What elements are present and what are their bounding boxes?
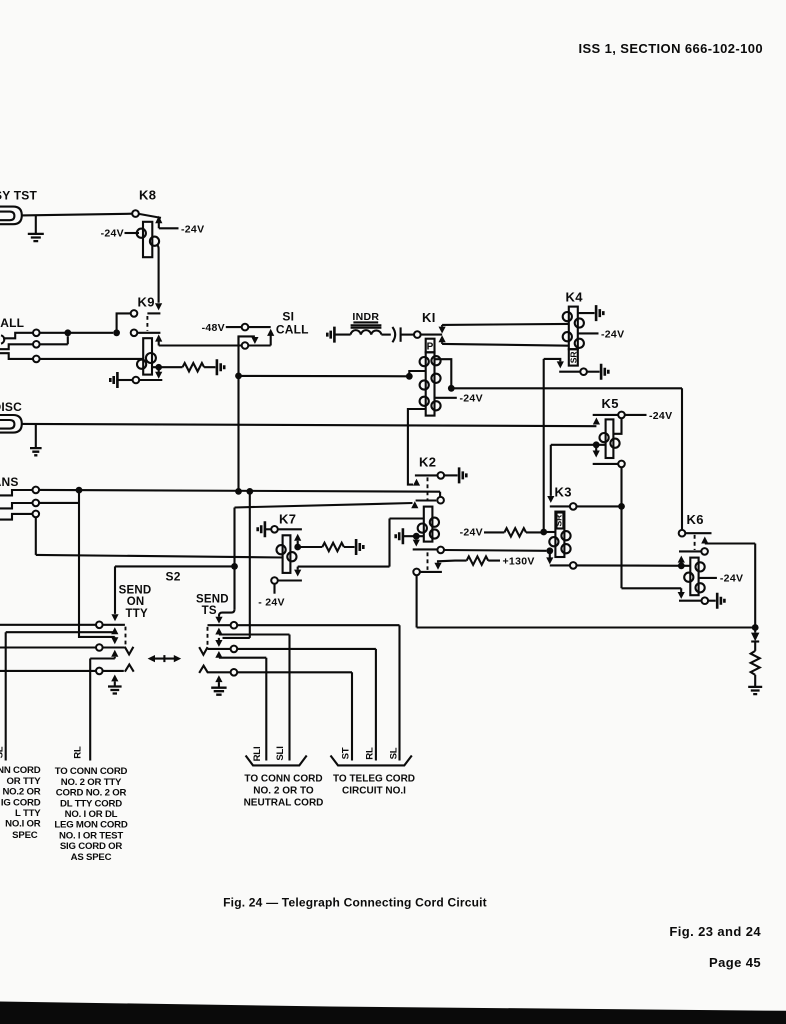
label -24V of K1 <box>435 397 457 399</box>
svg-text:CALL: CALL <box>276 322 309 336</box>
svg-text:Page 45: Page 45 <box>709 955 761 970</box>
K1 transfer arrow lower <box>441 342 443 344</box>
svg-text:RLI: RLI <box>252 746 263 761</box>
jack spring ANS 1 <box>0 490 33 495</box>
svg-text:-24V: -24V <box>649 410 672 422</box>
jumper spring SI CALL <box>239 336 255 345</box>
wire ANS row1 to K2 contact <box>39 490 440 497</box>
wire contact to K1 armature <box>421 334 443 336</box>
jack spring CALL 2 <box>0 344 33 349</box>
svg-text:SR: SR <box>553 515 563 527</box>
svg-text:-24V: -24V <box>720 573 743 585</box>
wire contact to SI CALL corner <box>248 326 270 328</box>
wire lever2 to RLI conductor <box>219 658 266 761</box>
switch S2 left row3 <box>0 646 96 648</box>
battery K9 bottom <box>110 372 117 388</box>
contact circle K6 top <box>679 530 686 537</box>
armature arrow K3 down <box>549 551 551 558</box>
node SI bus / ANS line <box>235 488 242 495</box>
relay coil K3 <box>555 512 564 557</box>
svg-text:L TTY: L TTY <box>15 808 41 819</box>
jack spring ANS 2 <box>0 503 33 508</box>
K1 transfer arrow upper <box>441 325 443 327</box>
armature arrow K8 <box>155 216 162 223</box>
svg-text:- 24V: - 24V <box>258 596 285 608</box>
battery K4 bottom <box>601 364 608 380</box>
wire K1 contact to K4 lower <box>442 344 569 346</box>
lever A mark <box>125 665 134 672</box>
armature arrow K6 second <box>678 556 685 563</box>
K9 lower lever <box>137 332 160 334</box>
svg-text:-24V: -24V <box>460 393 483 405</box>
svg-text:RL: RL <box>365 747 376 760</box>
switch S2 left row4 <box>0 670 96 672</box>
ground of BSY TST lamp <box>35 215 37 233</box>
svg-text:P: P <box>427 342 434 353</box>
svg-text:OR TTY: OR TTY <box>7 776 42 787</box>
svg-text:CORD NO. 2 OR: CORD NO. 2 OR <box>56 788 127 799</box>
svg-text:K6: K6 <box>687 512 704 527</box>
wire K1 node to K6 riser <box>451 387 682 389</box>
arrow S2 right row2 up <box>215 651 222 658</box>
switch S2 left row2 <box>6 631 115 633</box>
svg-text:TO TELEG CORD: TO TELEG CORD <box>333 773 415 784</box>
wire to K6 lower arrow <box>622 588 682 592</box>
svg-text:-24V: -24V <box>601 328 624 340</box>
battery left of INDR <box>327 327 334 343</box>
svg-text:K3: K3 <box>555 485 572 500</box>
resistor K9 <box>183 363 216 371</box>
dashed link K9 <box>146 316 148 331</box>
K3 contact row <box>550 505 570 507</box>
battery K6 bottom <box>717 593 724 609</box>
relay coil K8 <box>143 222 152 257</box>
wire into K5 coil <box>551 444 606 446</box>
K4 lower contact <box>559 371 580 373</box>
contact circle -48V <box>242 324 249 331</box>
contact circle K7 upper <box>271 526 278 533</box>
wire ST conductor <box>351 672 353 760</box>
arrow S2 right row1 up <box>215 628 222 635</box>
K6 second contact <box>679 550 701 552</box>
armature arrow K4 down <box>557 361 564 368</box>
wire ANS sleeve to K7 coil <box>36 555 283 558</box>
svg-text:KI: KI <box>422 310 436 325</box>
wire battery to K2 coil <box>403 535 424 537</box>
polarized box P of K1 <box>426 339 435 353</box>
slow release box SR of K4 <box>569 349 578 365</box>
resistor K7 <box>298 546 323 548</box>
lever A mark right <box>199 666 208 673</box>
svg-text:SL: SL <box>0 746 6 758</box>
switch S2 right row2 <box>208 648 231 650</box>
K5 lower contact <box>593 463 619 465</box>
svg-text:SL: SL <box>389 747 400 759</box>
wire K1 coil bottom to K2 <box>408 409 426 485</box>
battery K2 upper <box>459 467 466 483</box>
svg-text:K9: K9 <box>138 295 155 310</box>
svg-text:NO. I OR DL: NO. I OR DL <box>65 809 118 820</box>
armature arrow K9 up <box>155 334 162 341</box>
wire CALL row1 <box>40 332 114 334</box>
wire -48V <box>226 326 242 328</box>
K9 upper contact circle <box>131 310 138 317</box>
armature arrow K6 up and wire to bus <box>701 537 708 544</box>
node bus / diode <box>752 624 759 631</box>
svg-text:ISS 1, SECTION 666-102-100: ISS 1, SECTION 666-102-100 <box>578 41 763 56</box>
wire upper contact to junction <box>117 313 131 329</box>
brace conn cord <box>246 756 307 766</box>
armature arrow K9 down <box>158 370 160 373</box>
svg-text:AS SPEC: AS SPEC <box>71 852 112 863</box>
armature arrow K2 down <box>415 536 417 539</box>
battery right of K7 resistor <box>356 539 363 555</box>
svg-text:ON: ON <box>127 596 145 608</box>
svg-text:ST: ST <box>341 747 352 759</box>
K9 lower contact circle <box>131 330 138 337</box>
switch S2 right row3 <box>208 671 231 673</box>
svg-text:NO.I OR: NO.I OR <box>5 819 41 830</box>
svg-text:DL TTY CORD: DL TTY CORD <box>60 798 122 809</box>
wire ANS left bus down <box>78 490 80 632</box>
wire TS feed bus <box>223 491 250 638</box>
armature arrow from DISC line <box>593 418 600 425</box>
ground S2 right <box>215 675 222 682</box>
node K3 coil <box>540 529 547 536</box>
battery K4 top <box>596 305 603 321</box>
node SI bus / K1 line <box>235 373 242 380</box>
svg-text:-48V: -48V <box>202 322 225 334</box>
svg-text:TO CONN CORD: TO CONN CORD <box>55 766 128 777</box>
relay coil K2 <box>424 507 433 542</box>
wire K9 coil to resistor <box>152 366 183 368</box>
contact circle K8 <box>132 210 139 217</box>
svg-text:K5: K5 <box>602 396 619 411</box>
black bar bottom <box>0 1002 786 1024</box>
wire K8 coil down to K9 <box>157 245 158 303</box>
svg-text:LEG MON CORD: LEG MON CORD <box>54 820 128 831</box>
svg-text:NO. 2 OR TO: NO. 2 OR TO <box>253 785 314 796</box>
K2 bottom contact <box>413 548 438 550</box>
svg-text:NO. I OR TEST: NO. I OR TEST <box>59 830 123 841</box>
diode CR <box>754 628 756 633</box>
wire lever to RL conductor <box>90 659 115 761</box>
svg-text:CALL: CALL <box>0 316 24 330</box>
svg-text:TS: TS <box>202 605 217 617</box>
svg-text:-24V: -24V <box>460 526 483 538</box>
svg-text:Fig. 24 — Telegraph Connecting: Fig. 24 — Telegraph Connecting Cord Circ… <box>223 896 487 910</box>
svg-text:S2: S2 <box>166 569 181 583</box>
double arrow between switches <box>152 658 178 660</box>
wire CALL row2 up to row1 <box>40 336 68 344</box>
svg-text:K8: K8 <box>139 188 156 203</box>
relay coil K9 <box>143 338 152 374</box>
lever V mark right <box>199 647 207 655</box>
wire SI CALL vertical bus <box>237 336 239 491</box>
dashed link K2 <box>427 477 429 570</box>
wire S2 left feed <box>115 566 235 614</box>
svg-text:+130V: +130V <box>503 555 535 567</box>
svg-text:BSY TST: BSY TST <box>0 189 37 203</box>
resistor vertical <box>751 651 760 687</box>
svg-text:SEND: SEND <box>196 594 229 606</box>
wire SI bus to K1 coil <box>239 371 426 376</box>
wire riser to K6 <box>681 388 683 530</box>
contact circle K9 bottom <box>133 377 140 384</box>
svg-text:IG CORD: IG CORD <box>1 797 41 808</box>
svg-text:TTY: TTY <box>126 608 148 620</box>
jack tip CALL <box>1 335 4 343</box>
svg-text:K2: K2 <box>419 454 436 469</box>
wire K2 lower contact down and across to K6 <box>417 575 756 627</box>
wire RL right conductor <box>375 649 377 761</box>
svg-text:SEND: SEND <box>119 585 152 597</box>
relay coil K7 <box>283 535 291 573</box>
dashed link S2 left <box>125 627 127 646</box>
arrow S2 left row3 up <box>111 650 118 657</box>
svg-text:CIRCUIT NO.I: CIRCUIT NO.I <box>342 785 406 796</box>
wire SI CALL lower line <box>159 344 242 346</box>
wire capacitor to K1 contact <box>401 334 414 336</box>
jack spring ANS 3 <box>0 514 33 520</box>
lamp DISC <box>0 415 22 433</box>
wire battery to contact <box>117 379 132 381</box>
wire K3 contact to K6 <box>577 564 691 566</box>
SI CALL armature riser <box>270 335 272 346</box>
svg-text:TO CONN CORD: TO CONN CORD <box>244 773 322 784</box>
jack spring CALL 3 <box>0 353 33 359</box>
wire CALL sleeve to K9 coil <box>40 358 144 360</box>
wire K4 lever riser down to K3 <box>543 359 545 532</box>
armature arrow K7 down and wire to K2 coil <box>297 567 299 570</box>
wire K4 coil top to battery <box>578 312 595 314</box>
switch S2 right row1 <box>208 624 231 626</box>
wire SL conductor <box>398 625 400 760</box>
K9 upper lever <box>147 312 160 314</box>
wire left edge conductor <box>5 632 7 760</box>
wire lever1 to SLI conductor <box>219 635 290 761</box>
wire contact right <box>139 379 162 381</box>
wire DISC long line <box>21 424 596 426</box>
K2 upper contact <box>415 474 438 476</box>
arrow S2 left row1 up <box>111 627 118 634</box>
svg-text:SIG CORD OR: SIG CORD OR <box>60 841 123 852</box>
svg-text:-24V: -24V <box>101 228 124 240</box>
wire contact to -24V <box>273 584 275 594</box>
wire K7 bus to K2 lever arrow <box>235 503 413 508</box>
+130V arrow and resistor <box>434 563 441 570</box>
node K7 <box>294 544 301 551</box>
wire K4 -24V <box>578 332 599 334</box>
svg-text:DISC: DISC <box>0 400 22 414</box>
lamp BSY TST <box>0 207 22 225</box>
svg-text:-24V: -24V <box>181 223 204 235</box>
wire lamp to K8 contact <box>21 214 132 216</box>
switch S2 left row1 <box>0 624 96 626</box>
wire S2 bus <box>233 508 235 610</box>
armature arrow K5 down <box>595 445 597 451</box>
brace teleg cord <box>331 756 412 766</box>
svg-text:NEUTRAL CORD: NEUTRAL CORD <box>244 797 324 808</box>
K6 bottom contact <box>679 600 702 602</box>
battery right of K9 resistor <box>217 359 224 375</box>
wire TS corner <box>219 609 235 616</box>
K7 lower contact <box>271 577 278 584</box>
battery K2 left <box>396 528 403 544</box>
node ANS bus right <box>246 488 253 495</box>
wire K5 branch down to K3 <box>550 445 552 496</box>
dashed link K6 <box>694 535 696 550</box>
contact circle K1 <box>414 331 421 338</box>
dashed link S2 right <box>207 627 209 647</box>
wire K5 lower contact down <box>620 467 622 588</box>
K5 upper contact line <box>593 414 619 416</box>
wire INDR to capacitor <box>381 334 390 336</box>
svg-text:K7: K7 <box>279 511 296 526</box>
svg-text:NO.2 OR: NO.2 OR <box>2 787 40 798</box>
svg-text:SPEC: SPEC <box>12 830 38 841</box>
resistor K3 <box>484 531 504 533</box>
wire K6 -24V <box>699 577 717 579</box>
wire K1 contact to K4 upper <box>442 324 569 325</box>
wire contact to K8 armature <box>139 214 161 218</box>
svg-text:RL: RL <box>73 746 84 759</box>
relay coil K5 <box>606 419 614 458</box>
svg-text:SR: SR <box>569 351 579 363</box>
K6 upper contact line <box>685 532 711 534</box>
jack spring CALL 1 <box>3 333 33 339</box>
K2 middle lever <box>416 499 437 501</box>
ground bottom right <box>748 687 762 694</box>
wire ANS sleeve down <box>35 517 37 555</box>
lever V mark <box>125 647 134 655</box>
node K9 resistor <box>155 364 162 371</box>
wire K5 contact to coil <box>613 418 621 434</box>
wire K2 row to K3 node <box>444 549 546 552</box>
ground S2 left <box>111 675 118 682</box>
K2 lower transfer contact <box>413 569 420 576</box>
svg-text:NN CORD: NN CORD <box>0 765 41 776</box>
battery K7 upper <box>258 521 265 537</box>
capacitor K1 line <box>392 327 395 342</box>
wire left bus corner to arrow <box>79 632 115 637</box>
svg-text:K4: K4 <box>566 290 584 305</box>
ground of DISC lamp <box>35 424 37 448</box>
K3 lower contact row <box>550 564 570 566</box>
relay coil K6 <box>690 558 698 596</box>
wire ANS row2 <box>39 502 79 504</box>
node ANS row1 left <box>76 487 83 494</box>
svg-text:SLI: SLI <box>275 746 286 761</box>
wire battery to INDR <box>334 334 350 336</box>
node junction CALL/K9 <box>113 329 120 336</box>
svg-text:ANS: ANS <box>0 475 19 489</box>
relay coil K4 <box>569 307 578 350</box>
wire K1 coil upper right <box>435 359 452 388</box>
svg-text:INDR: INDR <box>352 311 379 323</box>
armature arrow K7 up <box>294 534 301 541</box>
relay coil K1 <box>426 352 435 415</box>
svg-text:NO. 2 OR TTY: NO. 2 OR TTY <box>61 777 122 788</box>
svg-text:Fig. 23 and 24: Fig. 23 and 24 <box>669 924 761 939</box>
wire -24V to K8 coil <box>125 232 140 234</box>
